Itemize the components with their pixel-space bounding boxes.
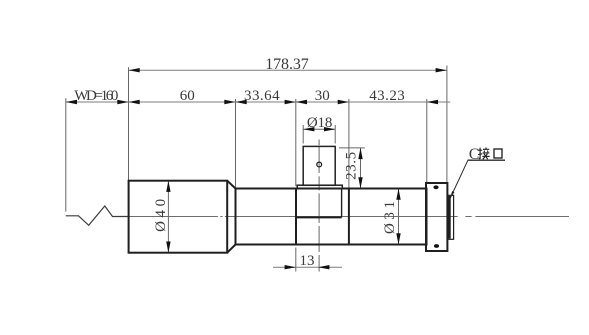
base plate under knob block [297, 146, 342, 188]
main body outlines [129, 181, 448, 253]
dim line D31 vertical [398, 189, 400, 245]
mid tube D31 [236, 189, 427, 245]
C-mount stub [448, 195, 454, 239]
thin gray line style g [66, 66, 451, 272]
extension line at 446.8 (flange face) [446, 66, 448, 184]
optical axis centerline [128, 216, 569, 218]
svg-text:C: C [469, 146, 479, 163]
178.37 arrows [129, 68, 140, 72]
joint at 349 [348, 189, 350, 245]
svg-text:43.23: 43.23 [369, 88, 405, 104]
extension line at 348.9 [348, 99, 350, 189]
dim line 178.37 [129, 69, 447, 71]
bowtie at 128.5 row2 [117, 100, 128, 104]
dim line D40 vertical [167, 181, 169, 253]
D31 arrows [396, 189, 400, 200]
svg-text:Ø18: Ø18 [307, 115, 333, 131]
dim line second row [66, 101, 451, 103]
dim line 13 [273, 266, 342, 268]
extension line at 426.8 [426, 99, 428, 183]
focus housing right edge [341, 189, 343, 218]
extension 13 left [295, 248, 297, 272]
taper cone [227, 181, 235, 189]
leader arrow C-mount [450, 191, 454, 198]
dimension texts [74, 56, 405, 269]
WD left arrow [66, 100, 77, 104]
front barrel D40 [129, 181, 228, 253]
leader line for C-mount [450, 160, 468, 198]
svg-text:30: 30 [315, 88, 330, 104]
dim line D18 [303, 128, 335, 130]
svg-text:13: 13 [300, 253, 315, 269]
dim line 23.5 vertical [360, 148, 362, 189]
svg-text:60: 60 [180, 88, 195, 104]
extension line at 235.5 [235, 99, 237, 189]
extension line at 128.5 (front of lens) [128, 67, 130, 180]
svg-text:Ø40: Ø40 [153, 199, 169, 232]
underline of label [468, 159, 505, 161]
23.5 arrows [358, 148, 362, 159]
joint at 296 [295, 188, 297, 245]
arrow right of 30 at 348.9 [338, 100, 349, 104]
13 arrows outside [285, 265, 296, 269]
D40 arrows [166, 181, 170, 192]
bowtie at 295.8 [285, 100, 296, 104]
label C interface [469, 146, 502, 163]
ext line 23.5 top horizontal [339, 147, 365, 149]
arrow at 426.8 pointing left from outside [427, 100, 438, 104]
hanzi jie [478, 147, 490, 159]
flange plate [426, 183, 447, 251]
D18 ext lines [302, 125, 304, 144]
svg-text:33.64: 33.64 [244, 88, 280, 104]
svg-text:178.37: 178.37 [265, 56, 309, 73]
flange screw holes [433, 185, 439, 248]
svg-text:WD=160: WD=160 [74, 88, 118, 104]
extension line at 295.8 [295, 99, 297, 186]
knob block D18 [303, 146, 335, 185]
knob circle [317, 162, 322, 167]
focus housing bottom edge [296, 216, 342, 218]
bowtie at 235.5 [224, 100, 235, 104]
arrows (solid) [66, 68, 455, 269]
hanzi kou [494, 149, 502, 158]
svg-text:23.5: 23.5 [344, 152, 360, 180]
object plane break (zigzag) [66, 206, 129, 225]
extension line WD left [65, 98, 67, 211]
block centerline vertical (dash-dot) [318, 140, 320, 146]
D18 arrows inside [303, 127, 314, 131]
svg-text:Ø31: Ø31 [382, 201, 398, 234]
